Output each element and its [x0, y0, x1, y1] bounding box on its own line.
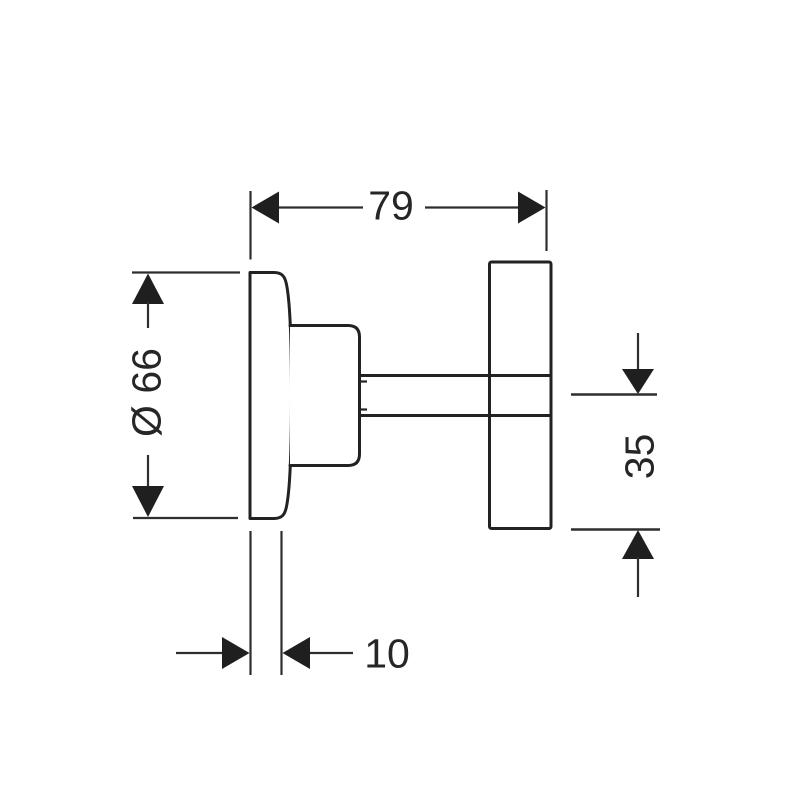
dim 35: upper arrow stem: [637, 333, 639, 371]
dim 35: lower arrow stem: [637, 557, 639, 597]
svg-text:Ø 66: Ø 66: [124, 348, 170, 437]
dim 10: right-pointing arrowhead: [222, 637, 250, 669]
dim 79: right extension line: [545, 190, 547, 251]
dim Ø66: bottom extension line: [133, 517, 238, 519]
handle bar (cross handle, side view): [490, 262, 552, 529]
stem step tick lower: [360, 408, 367, 410]
svg-text:35: 35: [617, 434, 663, 480]
dim 35: down arrowhead: [622, 369, 654, 394]
dim 79: left extension line: [249, 191, 251, 260]
dim 35: bottom tick line: [571, 528, 660, 530]
dim 10: left-pointing arrowhead: [283, 637, 311, 669]
dim Ø66: top extension line: [132, 271, 240, 273]
dim 79: right arrowhead: [518, 192, 546, 224]
dim Ø66: lower stem: [147, 455, 149, 488]
dim 10: left leader line: [176, 652, 224, 654]
dim 79: left arrowhead: [252, 192, 280, 224]
svg-text:79: 79: [368, 183, 414, 229]
dim 10: right leader line: [310, 652, 353, 654]
dim Ø66: down arrowhead: [132, 486, 164, 517]
sleeve (stepped hub): [290, 326, 360, 466]
dim 10: right extension line: [280, 531, 282, 675]
dim 10: left extension line: [249, 531, 251, 675]
stem top line: [360, 374, 552, 377]
dim 35: up arrowhead: [622, 530, 654, 559]
dim 79: line left segment: [278, 206, 363, 208]
dim Ø66: up arrowhead: [132, 274, 164, 305]
svg-text:10: 10: [364, 631, 410, 677]
stem step tick upper: [360, 380, 367, 382]
stem bottom line: [360, 414, 552, 417]
dim Ø66: upper stem: [147, 302, 149, 328]
dim 35: top tick line: [571, 393, 657, 395]
dim 79: line right segment: [425, 206, 519, 208]
escutcheon side profile: [250, 273, 292, 519]
